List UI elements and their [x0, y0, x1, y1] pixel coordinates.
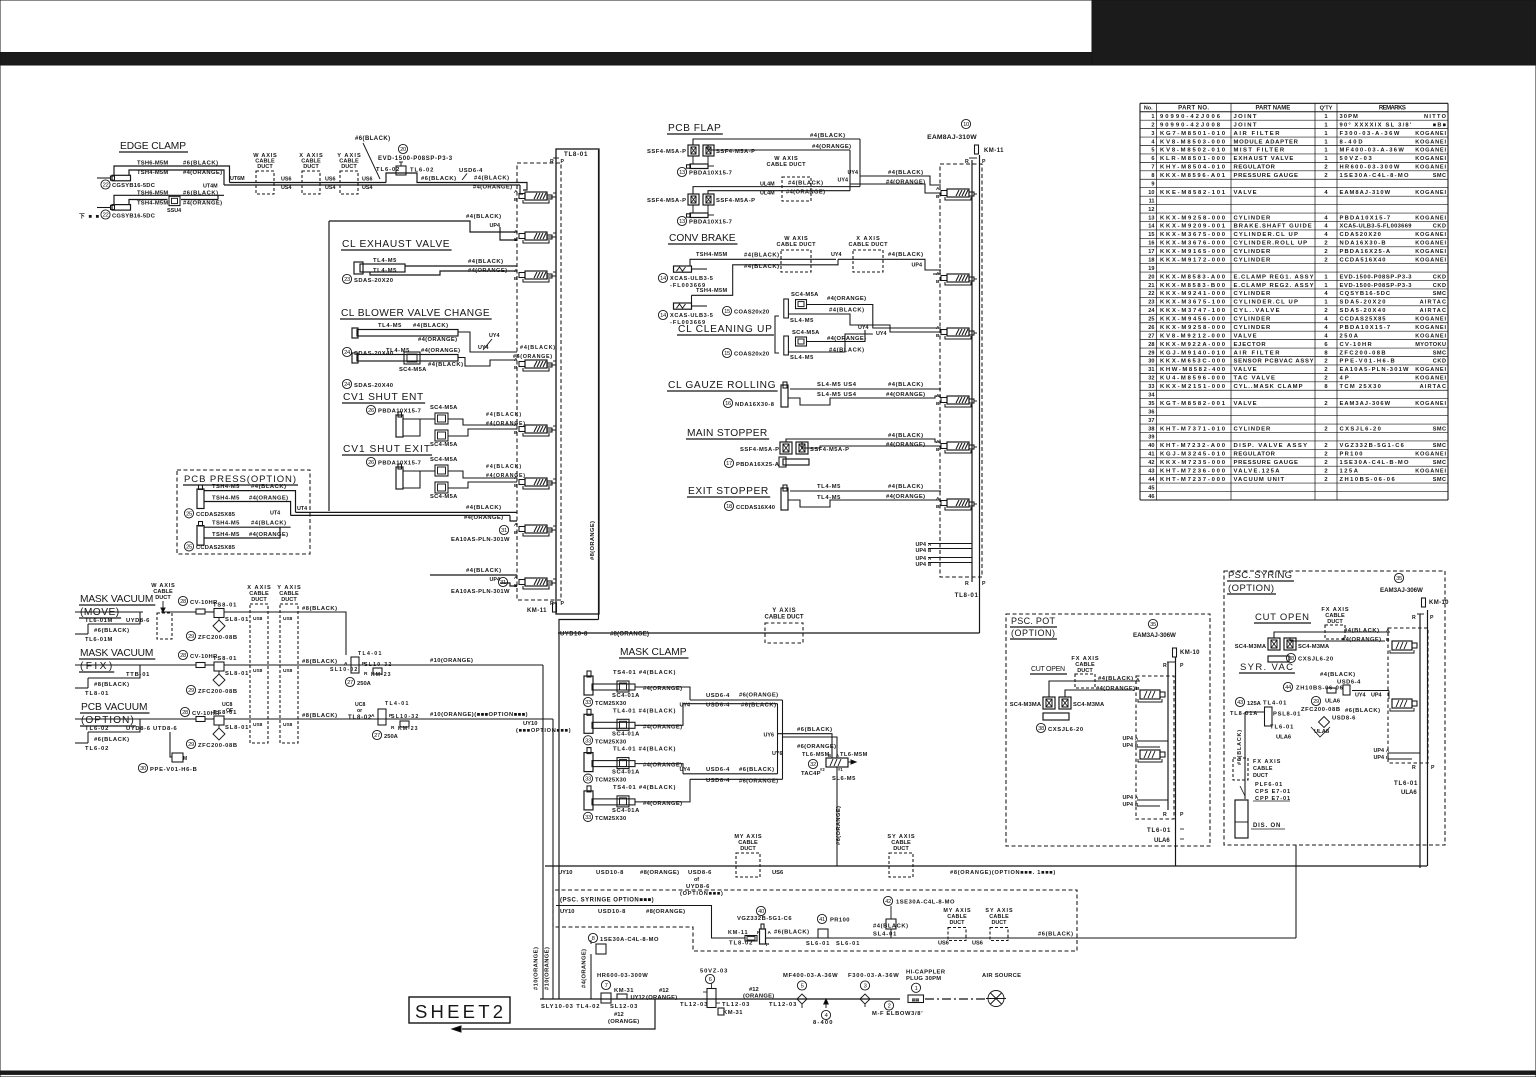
svg-text:TL6-01M: TL6-01M: [85, 618, 112, 624]
svg-text:US8: US8: [283, 668, 293, 674]
svg-text:22: 22: [103, 183, 109, 189]
svg-text:KKX-M653C-000: KKX-M653C-000: [1160, 359, 1226, 365]
svg-text:ZFC200-08B: ZFC200-08B: [1301, 707, 1340, 713]
svg-text:DUCT: DUCT: [257, 164, 273, 170]
svg-text:KM-11: KM-11: [728, 930, 748, 936]
svg-text:CYL..VALVE: CYL..VALVE: [1234, 308, 1280, 314]
svg-text:P: P: [561, 601, 565, 607]
svg-text:#4(BLACK): #4(BLACK): [744, 253, 779, 259]
svg-text:43: 43: [1148, 468, 1154, 474]
svg-text:TL8-02: TL8-02: [729, 941, 752, 947]
svg-text:17: 17: [726, 461, 732, 467]
svg-text:2: 2: [1324, 308, 1327, 314]
svg-text:#6(BLACK): #6(BLACK): [355, 136, 390, 142]
svg-text:EJECTOR: EJECTOR: [1234, 342, 1267, 348]
svg-text:46: 46: [1148, 494, 1154, 500]
svg-text:41: 41: [819, 917, 825, 923]
svg-text:UL4M: UL4M: [760, 182, 775, 188]
svg-text:42: 42: [1148, 460, 1154, 466]
svg-text:ULA6: ULA6: [1325, 699, 1341, 705]
svg-text:CKD: CKD: [1433, 224, 1446, 230]
svg-text:COAS20x20: COAS20x20: [734, 310, 769, 316]
svg-text:A: A: [514, 522, 518, 528]
svg-text:CV1 SHUT ENT: CV1 SHUT ENT: [343, 392, 423, 403]
svg-text:(OPTION■■■): (OPTION■■■): [680, 891, 723, 897]
svg-text:#4(ORANGE): #4(ORANGE): [1342, 637, 1381, 643]
svg-text:TL4-01: TL4-01: [358, 651, 382, 657]
section: long line y=866: [545, 865, 1427, 867]
svg-text:11: 11: [1149, 198, 1155, 204]
svg-text:DUCT: DUCT: [1327, 619, 1343, 625]
valve EAM3AJ-306W psc-pot at y=694: [1140, 690, 1160, 699]
svg-text:#4(BLACK): #4(BLACK): [788, 181, 823, 187]
svg-text:#8(BLACK): #8(BLACK): [94, 682, 129, 688]
svg-text:SC4-M5A: SC4-M5A: [792, 330, 820, 336]
svg-text:(■■■OPTION■■■): (■■■OPTION■■■): [516, 728, 571, 734]
svg-text:TL8-01: TL8-01: [564, 151, 588, 158]
svg-text:A: A: [344, 661, 348, 667]
svg-text:#4(BLACK): #4(BLACK): [251, 521, 286, 527]
svg-text:B: B: [828, 753, 831, 758]
valve EAM3AJ-306W psc-syring at y=703: [1392, 699, 1412, 708]
svg-text:3: 3: [864, 984, 867, 990]
svg-text:KKX-M9172-000: KKX-M9172-000: [1160, 257, 1226, 263]
svg-text:#4(BLACK): #4(BLACK): [251, 484, 286, 490]
svg-text:#8(ORANGE)(OPTION■■■. 1■■■): #8(ORANGE)(OPTION■■■. 1■■■): [950, 870, 1055, 876]
svg-text:M-F ELBOW3/8’: M-F ELBOW3/8’: [872, 1011, 923, 1017]
svg-text:KOGANEI: KOGANEI: [1415, 190, 1446, 196]
svg-text:31: 31: [501, 528, 507, 534]
svg-text:A: A: [514, 189, 518, 195]
svg-text:250A: 250A: [1340, 333, 1359, 339]
svg-text:CKD: CKD: [1433, 274, 1446, 280]
svg-text:CYLINDER: CYLINDER: [1234, 291, 1272, 297]
svg-text:A: A: [836, 753, 839, 758]
svg-text:KGJ-M3245-010: KGJ-M3245-010: [1160, 452, 1226, 458]
svg-text:#6(BLACK): #6(BLACK): [421, 176, 456, 182]
svg-text:22: 22: [103, 213, 109, 219]
svg-text:13: 13: [679, 219, 685, 225]
svg-text:UP4: UP4: [916, 548, 927, 554]
svg-text:KOGANEI: KOGANEI: [1415, 249, 1446, 255]
svg-text:or: or: [357, 708, 362, 714]
svg-text:CCDAS25X85: CCDAS25X85: [196, 512, 236, 518]
svg-text:DUCT: DUCT: [1253, 773, 1269, 779]
svg-text:CYLINDER: CYLINDER: [1234, 317, 1272, 323]
svg-text:29: 29: [188, 634, 194, 640]
svg-text:US8: US8: [253, 722, 263, 728]
svg-text:COAS20x20: COAS20x20: [734, 352, 769, 358]
svg-text:A: A: [768, 930, 772, 936]
svg-text:24: 24: [1148, 308, 1155, 314]
svg-text:#4(ORANGE): #4(ORANGE): [1096, 686, 1135, 692]
svg-text:90° XXXXIX SL 3/8’: 90° XXXXIX SL 3/8’: [1340, 122, 1412, 128]
svg-text:(ORANGE): (ORANGE): [608, 1019, 639, 1025]
svg-text:SL4-M5 US4: SL4-M5 US4: [817, 382, 857, 388]
svg-text:KV8-M8503-000: KV8-M8503-000: [1160, 139, 1226, 145]
svg-text:KHW-M8582-400: KHW-M8582-400: [1160, 367, 1226, 373]
svg-text:CPS E7-01: CPS E7-01: [1255, 789, 1290, 795]
svg-text:KHT-M7232-A00: KHT-M7232-A00: [1160, 443, 1226, 449]
svg-text:#6(BLACK): #6(BLACK): [1038, 932, 1073, 938]
svg-text:CXSJL6-20: CXSJL6-20: [1048, 727, 1083, 733]
svg-text:#4(ORANGE): #4(ORANGE): [827, 296, 866, 302]
svg-text:33: 33: [585, 777, 591, 783]
svg-text:TL4-M5: TL4-M5: [386, 348, 410, 354]
svg-text:UY4: UY4: [848, 170, 859, 176]
svg-text:DUCT: DUCT: [303, 164, 319, 170]
svg-text:UY4: UY4: [489, 333, 500, 339]
svg-text:CYLINDER: CYLINDER: [1234, 257, 1272, 263]
svg-text:TL8-02: TL8-02: [348, 715, 372, 721]
title-block top band: [0, 53, 1536, 66]
svg-text:TL6-M5M: TL6-M5M: [802, 752, 830, 758]
svg-text:PBDA10X15-7: PBDA10X15-7: [689, 220, 732, 226]
svg-text:TL6-02: TL6-02: [410, 168, 433, 174]
svg-text:8: 8: [592, 936, 595, 942]
svg-text:F300-03-A-36W: F300-03-A-36W: [848, 973, 899, 979]
svg-text:#4(BLACK): #4(BLACK): [468, 259, 503, 265]
svg-text:#6(BLACK): #6(BLACK): [94, 628, 129, 634]
cylinder PBDA10X15-7 group 2 (SSF4-M5A-P fittings): [688, 194, 699, 205]
svg-text:31: 31: [500, 580, 506, 586]
svg-text:#8(BLACK): #8(BLACK): [302, 713, 337, 719]
svg-text:#4(ORANGE): #4(ORANGE): [249, 496, 288, 502]
svg-text:KHY-M8504-010: KHY-M8504-010: [1160, 165, 1226, 171]
svg-text:US6: US6: [772, 870, 784, 876]
svg-text:KOGANEI: KOGANEI: [1415, 333, 1446, 339]
svg-text:15: 15: [724, 351, 730, 357]
svg-text:38: 38: [1038, 726, 1044, 732]
svg-text:SC4-01A: SC4-01A: [612, 770, 640, 776]
svg-text:TSH4-M5: TSH4-M5: [212, 496, 240, 502]
svg-text:SL4-01: SL4-01: [873, 932, 897, 938]
svg-text:SMC: SMC: [1433, 460, 1446, 466]
svg-text:PSC. SYRING: PSC. SYRING: [1228, 570, 1292, 581]
svg-text:■B■: ■B■: [1433, 122, 1447, 128]
svg-text:#6(BLACK): #6(BLACK): [739, 767, 774, 773]
svg-text:8-400: 8-400: [813, 1020, 833, 1026]
svg-text:18: 18: [726, 504, 732, 510]
valve EAM8AJ-310W manifold1 #2: [525, 232, 547, 240]
svg-text:#4(BLACK): #4(BLACK): [466, 505, 501, 511]
svg-text:28: 28: [180, 653, 186, 659]
svg-text:NDA16X30-B: NDA16X30-B: [1340, 241, 1386, 247]
svg-text:34: 34: [1148, 393, 1155, 399]
svg-text:TL8-01: TL8-01: [955, 592, 979, 599]
svg-text:CV-10HR: CV-10HR: [1340, 342, 1373, 348]
svg-text:29: 29: [1148, 350, 1154, 356]
svg-text:9: 9: [1151, 182, 1154, 188]
svg-text:MYOTOKU: MYOTOKU: [1415, 342, 1446, 348]
svg-text:SC4-M5A: SC4-M5A: [430, 494, 458, 500]
svg-text:USD10-8: USD10-8: [598, 909, 626, 915]
svg-text:TL6-02: TL6-02: [85, 746, 108, 752]
svg-text:KM-10: KM-10: [1429, 600, 1449, 606]
svg-text:TL4-01: TL4-01: [1263, 701, 1287, 707]
svg-text:SL8-01: SL8-01: [225, 617, 249, 623]
svg-text:TAC VALVE: TAC VALVE: [1234, 376, 1275, 382]
svg-text:HI-CAPPLER: HI-CAPPLER: [906, 970, 946, 976]
svg-text:VALVE: VALVE: [1234, 367, 1257, 373]
svg-text:7: 7: [1151, 165, 1154, 171]
svg-text:6: 6: [709, 977, 712, 983]
svg-text:#12: #12: [614, 1012, 624, 1018]
svg-text:KKX-M9241-000: KKX-M9241-000: [1160, 291, 1226, 297]
svg-text:CL BLOWER VALVE CHANGE: CL BLOWER VALVE CHANGE: [341, 308, 490, 319]
svg-text:4P: 4P: [1340, 376, 1349, 382]
svg-text:KM-31: KM-31: [723, 1010, 743, 1016]
svg-text:MASK CLAMP: MASK CLAMP: [620, 647, 687, 658]
svg-text:XCA5-ULB3-5-FL003669: XCA5-ULB3-5-FL003669: [1340, 224, 1413, 230]
svg-text:16: 16: [1148, 241, 1154, 247]
svg-text:#6(BLACK): #6(BLACK): [94, 737, 129, 743]
svg-text:250A: 250A: [384, 734, 399, 740]
svg-text:US6: US6: [281, 177, 292, 183]
section: MANIFOLD 1 (TL8-01 left): [517, 163, 561, 600]
svg-text:EAM8AJ-310W: EAM8AJ-310W: [1340, 190, 1391, 196]
svg-text:Y AXIS: Y AXIS: [772, 608, 795, 614]
svg-text:UY10: UY10: [558, 870, 573, 876]
svg-text:2: 2: [1324, 468, 1327, 474]
svg-text:KG7-M8501-010: KG7-M8501-010: [1160, 131, 1226, 137]
svg-text:M: M: [183, 756, 187, 762]
svg-text:UY10: UY10: [523, 721, 538, 727]
svg-text:KM-11: KM-11: [527, 608, 547, 614]
svg-text:UT6M: UT6M: [230, 176, 245, 182]
svg-text:TS8-01: TS8-01: [213, 710, 237, 716]
svg-text:B: B: [936, 401, 940, 407]
svg-text:R: R: [965, 159, 969, 165]
svg-text:TCM25X30: TCM25X30: [595, 816, 626, 822]
svg-text:2: 2: [1324, 173, 1327, 179]
svg-text:CABLE DUCT: CABLE DUCT: [767, 162, 807, 168]
svg-text:SC4-M3MA: SC4-M3MA: [1235, 644, 1267, 650]
svg-text:PART NO.: PART NO.: [1178, 106, 1209, 112]
svg-text:33: 33: [585, 700, 591, 706]
svg-text:20: 20: [1148, 274, 1154, 280]
svg-text:CYLINDER: CYLINDER: [1234, 215, 1272, 221]
svg-text:KOGANEI: KOGANEI: [1415, 376, 1446, 382]
svg-text:PRESSURE GAUGE: PRESSURE GAUGE: [1234, 460, 1298, 466]
svg-text:P: P: [1431, 765, 1435, 771]
svg-text:TS8-01: TS8-01: [213, 603, 237, 609]
svg-text:28: 28: [1148, 342, 1154, 348]
svg-text:#4(BLACK): #4(BLACK): [1344, 628, 1379, 634]
svg-text:#4(BLACK): #4(BLACK): [888, 484, 923, 490]
svg-text:A: A: [936, 186, 940, 192]
svg-text:CCDAS25X85: CCDAS25X85: [196, 545, 236, 551]
svg-text:SL4-M5: SL4-M5: [790, 318, 814, 324]
svg-text:CCDA516X40: CCDA516X40: [1340, 257, 1386, 263]
svg-text:UP4: UP4: [1374, 755, 1385, 761]
svg-text:B: B: [936, 447, 940, 453]
svg-text:#4(BLACK): #4(BLACK): [888, 382, 923, 388]
svg-text:B: B: [514, 197, 518, 203]
svg-text:PCB FLAP: PCB FLAP: [668, 123, 721, 134]
svg-text:SC4-M3MA: SC4-M3MA: [1010, 702, 1042, 708]
svg-text:#4(ORANGE): #4(ORANGE): [486, 421, 525, 427]
svg-text:R: R: [364, 671, 368, 677]
svg-text:ULA6: ULA6: [1276, 735, 1292, 741]
svg-text:2: 2: [1324, 165, 1327, 171]
svg-text:UY4: UY4: [838, 178, 849, 184]
svg-text:US4: US4: [362, 185, 373, 191]
svg-text:1SE30A-C4L-8-MO: 1SE30A-C4L-8-MO: [600, 937, 659, 943]
svg-text:UP4: UP4: [912, 263, 923, 269]
svg-text:B: B: [514, 530, 518, 536]
valve EAM8AJ-310W manifold1 #7: [525, 525, 547, 533]
svg-text:19: 19: [1148, 266, 1154, 272]
svg-text:A: A: [936, 496, 940, 502]
svg-text:#4(BLACK): #4(BLACK): [829, 308, 864, 314]
valve EAM8AJ-310W manifold1 #4: [525, 360, 547, 368]
svg-text:125A: 125A: [1340, 468, 1359, 474]
svg-text:UY12: UY12: [630, 995, 645, 1001]
svg-text:UP4: UP4: [1123, 795, 1134, 801]
svg-text:#4(BLACK): #4(BLACK): [466, 214, 501, 220]
svg-text:SL6-01: SL6-01: [836, 941, 859, 947]
svg-text:20: 20: [400, 147, 406, 153]
svg-text:SC4-M3MA: SC4-M3MA: [1298, 644, 1330, 650]
svg-text:#4(ORANGE): #4(ORANGE): [513, 354, 552, 360]
svg-text:AIR FILTER: AIR FILTER: [1234, 131, 1281, 137]
svg-text:1SE30A-C4L-B-MO: 1SE30A-C4L-B-MO: [1340, 460, 1409, 466]
svg-text:#12: #12: [659, 988, 669, 994]
svg-text:41: 41: [1148, 452, 1154, 458]
svg-text:CQSYB16-5DC: CQSYB16-5DC: [1340, 291, 1391, 297]
svg-text:#8(ORANGE): #8(ORANGE): [640, 870, 679, 876]
svg-text:F300-03-A-36W: F300-03-A-36W: [1340, 131, 1400, 137]
svg-text:PPE-V01-H6-B: PPE-V01-H6-B: [150, 767, 197, 773]
svg-text:AIR SOURCE: AIR SOURCE: [982, 973, 1021, 979]
svg-text:VACUUM UNIT: VACUUM UNIT: [1234, 477, 1285, 483]
valve EAM3AJ-306W psc-syring at y=645: [1392, 641, 1412, 650]
svg-text:TCM 25X30: TCM 25X30: [1340, 384, 1381, 390]
svg-text:UT4: UT4: [297, 506, 307, 512]
svg-text:#2: #2: [820, 767, 825, 772]
svg-text:R: R: [1163, 812, 1167, 818]
svg-text:#4(BLACK): #4(BLACK): [520, 345, 555, 351]
svg-text:▤▤: ▤▤: [912, 997, 920, 1002]
svg-text:CL CLEANING UP: CL CLEANING UP: [678, 324, 772, 335]
svg-text:SL6-01: SL6-01: [806, 941, 829, 947]
svg-text:50VZ-03: 50VZ-03: [1340, 156, 1373, 162]
svg-text:P: P: [561, 159, 565, 165]
svg-text:SL8-01: SL8-01: [225, 671, 249, 677]
svg-text:TCM25X30: TCM25X30: [595, 739, 626, 745]
svg-text:125A: 125A: [1247, 701, 1262, 707]
svg-text:#8(ORANGE): #8(ORANGE): [610, 632, 649, 638]
svg-text:REMARKS: REMARKS: [1379, 106, 1406, 112]
svg-text:#1: #1: [838, 767, 843, 772]
svg-text:#4(ORANGE): #4(ORANGE): [183, 201, 222, 207]
svg-text:TL6-02: TL6-02: [85, 726, 108, 732]
svg-text:#4(ORANGE): #4(ORANGE): [468, 268, 507, 274]
svg-text:37: 37: [1148, 418, 1154, 424]
valve EAM8AJ-310W manifold2 #4: [947, 396, 969, 404]
svg-text:TL6-01M: TL6-01M: [85, 637, 112, 643]
svg-text:SL8-01: SL8-01: [225, 725, 249, 731]
svg-text:KOGANEI: KOGANEI: [1415, 367, 1446, 373]
svg-text:TCM25X30: TCM25X30: [595, 701, 626, 707]
svg-text:KHT-M7371-010: KHT-M7371-010: [1160, 426, 1226, 432]
svg-text:TL4-M5: TL4-M5: [373, 258, 397, 264]
svg-text:31: 31: [1148, 367, 1154, 373]
svg-text:XCAS-ULB3-5: XCAS-ULB3-5: [670, 276, 713, 282]
svg-text:KKX-M9258-000: KKX-M9258-000: [1160, 215, 1226, 221]
svg-text:CABLE DUCT: CABLE DUCT: [849, 242, 889, 248]
svg-text:KOGANEI: KOGANEI: [1415, 317, 1446, 323]
svg-text:UP4: UP4: [1123, 743, 1134, 749]
svg-text:USD10-8: USD10-8: [596, 870, 624, 876]
svg-text:6: 6: [1151, 156, 1154, 162]
svg-text:30: 30: [1148, 359, 1154, 365]
svg-text:of: of: [694, 877, 699, 883]
svg-text:EA10A5-PLN-301W: EA10A5-PLN-301W: [1340, 367, 1410, 373]
svg-text:R: R: [1412, 765, 1416, 771]
svg-text:#6(ORANGE): #6(ORANGE): [739, 693, 778, 699]
svg-text:KKX-M9209-001: KKX-M9209-001: [1160, 224, 1226, 230]
svg-text:26: 26: [368, 460, 374, 466]
svg-text:KKX-M3747-100: KKX-M3747-100: [1160, 308, 1226, 314]
valve EAM8AJ-310W manifold1 #3: [525, 271, 547, 279]
svg-text:33: 33: [1148, 384, 1154, 390]
svg-text:E.CLAMP REG2. ASSY: E.CLAMP REG2. ASSY: [1234, 283, 1314, 289]
svg-text:TSH4-M5: TSH4-M5: [212, 532, 240, 538]
manifold1 port stubs: [547, 196, 556, 198]
svg-text:UYD8-6: UYD8-6: [686, 884, 710, 890]
svg-text:DUCT: DUCT: [1077, 668, 1093, 674]
svg-text:PR100: PR100: [830, 918, 850, 924]
valve EAM8AJ-310W manifold2 #1: [947, 189, 969, 197]
svg-text:US8: US8: [253, 616, 263, 622]
svg-text:US6: US6: [325, 177, 336, 183]
svg-text:29: 29: [188, 688, 194, 694]
svg-text:28: 28: [182, 710, 188, 716]
svg-text:XCAS-ULB3-5: XCAS-ULB3-5: [670, 313, 713, 319]
svg-text:KKX-M2151-000: KKX-M2151-000: [1160, 384, 1226, 390]
svg-text:CCDAS25X85: CCDAS25X85: [1340, 317, 1387, 323]
svg-text:29: 29: [188, 742, 194, 748]
svg-text:CYLINDER: CYLINDER: [1234, 325, 1272, 331]
svg-text:23: 23: [1148, 300, 1154, 306]
svg-text:US6: US6: [972, 941, 983, 947]
svg-text:(OPTION): (OPTION): [1228, 583, 1274, 594]
svg-text:30: 30: [140, 766, 146, 772]
svg-text:SC4-M5A: SC4-M5A: [791, 292, 819, 298]
svg-text:TL6-01: TL6-01: [1147, 828, 1171, 834]
valve EAM8AJ-310W manifold1 #1: [525, 192, 547, 200]
svg-text:VALVE: VALVE: [1234, 401, 1257, 407]
svg-text:(PSC. SYRINGE OPTION■■■): (PSC. SYRINGE OPTION■■■): [560, 898, 654, 904]
svg-text:SC4-M5A: SC4-M5A: [399, 367, 427, 373]
svg-text:35: 35: [1150, 622, 1156, 628]
svg-text:CGSYB16-5DC: CGSYB16-5DC: [112, 183, 156, 189]
svg-text:AIRTAC: AIRTAC: [1420, 384, 1446, 390]
svg-text:#6(ORANGE): #6(ORANGE): [797, 744, 836, 750]
svg-text:CCDAS16X40: CCDAS16X40: [736, 505, 775, 511]
svg-text:VALVE.125A: VALVE.125A: [1234, 468, 1281, 474]
svg-text:DISP. VALVE ASSY: DISP. VALVE ASSY: [1234, 443, 1308, 449]
svg-text:KM-23: KM-23: [371, 672, 391, 678]
svg-text:26: 26: [368, 408, 374, 414]
svg-text:PBDA16X25-A: PBDA16X25-A: [736, 462, 780, 468]
svg-text:KKX-M3676-000: KKX-M3676-000: [1160, 241, 1226, 247]
svg-text:23: 23: [344, 277, 350, 283]
svg-text:1: 1: [1151, 114, 1154, 120]
svg-text:#6(BLACK): #6(BLACK): [1345, 708, 1380, 714]
